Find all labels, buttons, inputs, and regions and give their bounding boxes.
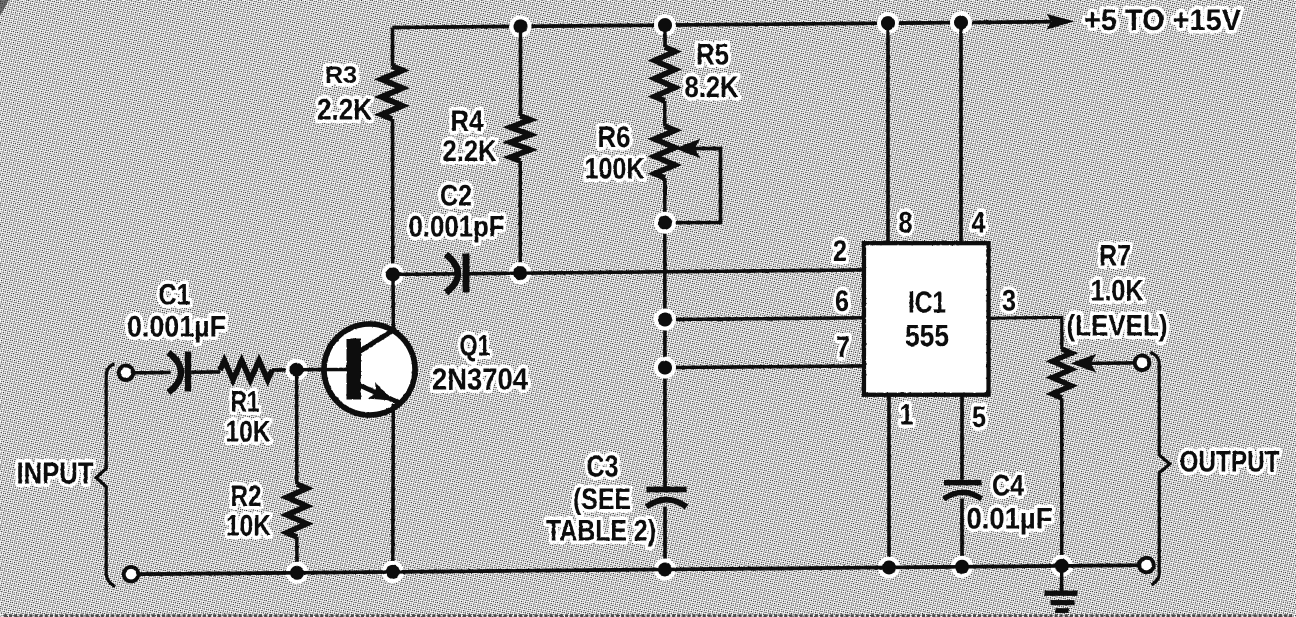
svg-text:1: 1 [900, 399, 914, 432]
svg-text:OUTPUT: OUTPUT [1180, 446, 1280, 479]
svg-text:2: 2 [833, 235, 847, 268]
svg-text:0.001µF: 0.001µF [127, 311, 226, 344]
svg-text:7: 7 [836, 331, 850, 364]
svg-text:10K: 10K [226, 416, 271, 449]
svg-text:+5 TO +15V: +5 TO +15V [1084, 4, 1241, 37]
svg-text:0.001pF: 0.001pF [409, 211, 505, 244]
svg-text:C1: C1 [159, 279, 191, 312]
svg-text:TABLE 2): TABLE 2) [546, 515, 656, 548]
svg-text:R1: R1 [231, 386, 260, 419]
svg-text:C3: C3 [587, 449, 619, 484]
svg-text:C4: C4 [992, 470, 1024, 503]
svg-text:(LEVEL): (LEVEL) [1067, 310, 1168, 343]
svg-text:555: 555 [905, 318, 949, 353]
svg-text:R6: R6 [598, 121, 631, 154]
svg-text:10K: 10K [226, 510, 271, 543]
svg-text:1.0K: 1.0K [1091, 275, 1144, 308]
svg-text:R2: R2 [231, 480, 262, 513]
svg-text:2.2K: 2.2K [443, 135, 497, 168]
svg-text:6: 6 [835, 285, 849, 318]
svg-text:8.2K: 8.2K [685, 71, 739, 104]
svg-text:0.01µF: 0.01µF [967, 503, 1053, 536]
svg-text:R5: R5 [696, 39, 729, 72]
svg-text:3: 3 [1002, 285, 1016, 318]
svg-text:Q1: Q1 [460, 330, 491, 363]
svg-text:8: 8 [899, 207, 913, 240]
svg-text:R3: R3 [325, 62, 357, 89]
svg-text:100K: 100K [585, 153, 645, 186]
svg-text:IC1: IC1 [908, 285, 946, 320]
svg-text:2.2K: 2.2K [317, 94, 372, 127]
svg-text:5: 5 [972, 401, 986, 434]
svg-text:2N3704: 2N3704 [432, 362, 529, 397]
svg-text:4: 4 [972, 207, 986, 240]
svg-text:R7: R7 [1099, 240, 1131, 273]
svg-text:(SEE: (SEE [573, 483, 631, 516]
svg-text:R4: R4 [451, 105, 484, 138]
svg-text:C2: C2 [440, 180, 472, 213]
svg-text:INPUT: INPUT [17, 455, 94, 490]
